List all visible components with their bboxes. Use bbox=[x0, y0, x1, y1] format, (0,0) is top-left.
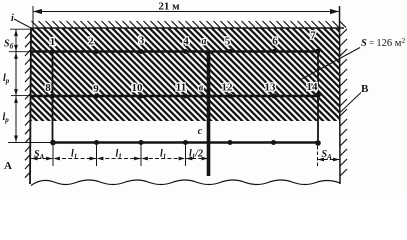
svg-text:8: 8 bbox=[45, 82, 51, 94]
svg-text:9: 9 bbox=[93, 83, 99, 95]
svg-text:12: 12 bbox=[222, 82, 234, 94]
top boundary hatch ticks bbox=[32, 21, 347, 28]
bottom dimension ticks bbox=[53, 145, 318, 167]
left boundary hatch ticks bbox=[25, 32, 31, 178]
svg-text:в: в bbox=[199, 83, 204, 94]
svg-text:В: В bbox=[361, 83, 369, 95]
svg-text:14: 14 bbox=[307, 81, 319, 93]
svg-text:5: 5 bbox=[225, 36, 231, 48]
svg-text:7: 7 bbox=[310, 30, 316, 42]
row 1 dots bbox=[50, 49, 320, 55]
ground break wavy line bbox=[31, 180, 340, 186]
dimension 21 m line bbox=[33, 6, 339, 27]
svg-text:10: 10 bbox=[132, 82, 144, 94]
bottom dimension line S_A l1 l1 l1 l1/2 bbox=[31, 159, 340, 160]
grid row 1 line (points 1-7) bbox=[31, 50, 319, 52]
grid left column line bbox=[52, 52, 54, 143]
row 3 thin extension to boundary bbox=[8, 142, 53, 144]
row 2 left extension bbox=[11, 95, 31, 97]
right boundary line B bbox=[339, 6, 342, 184]
svg-text:6: 6 bbox=[272, 36, 278, 48]
svg-text:i: i bbox=[11, 13, 14, 24]
top boundary line bbox=[30, 27, 344, 29]
svg-text:S = 126 м2: S = 126 м2 bbox=[361, 36, 405, 49]
svg-text:А: А bbox=[4, 160, 12, 172]
left boundary line A bbox=[30, 28, 31, 184]
svg-text:2: 2 bbox=[88, 36, 94, 48]
row 1 left extension bbox=[9, 51, 31, 53]
center axis line a-b-c bbox=[207, 52, 211, 177]
top boundary left extension bbox=[10, 28, 31, 30]
hatched plot area S bbox=[31, 28, 340, 121]
row 3 dots bbox=[50, 140, 321, 146]
svg-text:c: c bbox=[198, 126, 203, 137]
row 2 dots bbox=[50, 92, 321, 98]
svg-text:13: 13 bbox=[265, 82, 277, 94]
grid row 3 line (bottom points) bbox=[53, 141, 319, 143]
svg-text:1: 1 bbox=[50, 36, 56, 48]
grid row 2 line (points 8-14) bbox=[31, 95, 319, 97]
svg-text:4: 4 bbox=[183, 36, 189, 48]
grid right column line bbox=[317, 51, 319, 143]
dimension 21 m arrowheads bbox=[33, 9, 339, 14]
svg-text:3: 3 bbox=[139, 35, 145, 47]
left chain arrowheads bbox=[14, 30, 18, 143]
right boundary hatch ticks bbox=[340, 29, 347, 176]
svg-text:21 м: 21 м bbox=[158, 1, 180, 13]
left dimension chain line bbox=[15, 30, 17, 142]
svg-text:a: a bbox=[202, 36, 207, 47]
svg-text:11: 11 bbox=[176, 82, 186, 94]
bottom dimension arrowheads bbox=[31, 157, 340, 162]
svg-text:l1/2: l1/2 bbox=[189, 149, 203, 161]
